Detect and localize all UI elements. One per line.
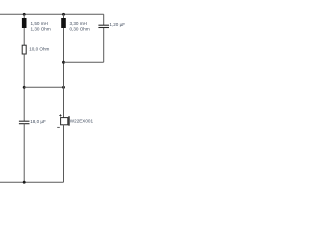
node junction mid-left (23, 86, 26, 89)
node junction top-mid (62, 13, 65, 16)
speaker diaphragm bar (68, 116, 70, 126)
svg-text:18,0 µF: 18,0 µF (30, 119, 46, 124)
svg-text:1,20 µF: 1,20 µF (109, 22, 125, 27)
wire L1 to R1 (23, 28, 25, 45)
capacitor C1 18,0 uF plates (19, 120, 30, 122)
wire L2 down to speaker (63, 28, 65, 118)
node junction mid-centre (62, 86, 65, 89)
svg-text:1,30 Ohm: 1,30 Ohm (31, 26, 51, 31)
wire cap branch vertical down (103, 28, 105, 63)
wire L1 top lead (23, 14, 25, 18)
node junction cap branch (62, 61, 65, 64)
wire cap branch horizontal (64, 61, 104, 63)
inductor L1 1,50 mH (22, 18, 27, 28)
svg-text:3,30 mH: 3,30 mH (70, 21, 87, 26)
wire C1 down to bottom rail (23, 124, 25, 183)
wire bottom rail (0, 181, 64, 183)
capacitor C2 1,20 uF plates (98, 24, 109, 26)
svg-text:10,0 Ohm: 10,0 Ohm (29, 47, 49, 52)
svg-text:1,50 mH: 1,50 mH (31, 21, 48, 26)
wire top rail (0, 13, 104, 15)
inductor L2 3,30 mH (61, 18, 66, 28)
speaker minus polarity mark (57, 126, 60, 128)
wire R1 down to node (23, 54, 25, 121)
node junction bottom (23, 181, 26, 184)
node junction top-left (23, 13, 26, 16)
wire middle horizontal (24, 86, 63, 88)
speaker W22EX001 body (61, 118, 68, 125)
svg-text:0,30 Ohm: 0,30 Ohm (70, 26, 90, 31)
wire cap branch vertical up (103, 14, 105, 25)
resistor R1 10,0 Ohm (22, 45, 26, 54)
svg-text:W22EX001: W22EX001 (70, 118, 94, 123)
speaker plus polarity mark (59, 114, 61, 116)
wire L2 top lead (63, 14, 65, 18)
wire speaker down to bottom rail (63, 125, 65, 182)
